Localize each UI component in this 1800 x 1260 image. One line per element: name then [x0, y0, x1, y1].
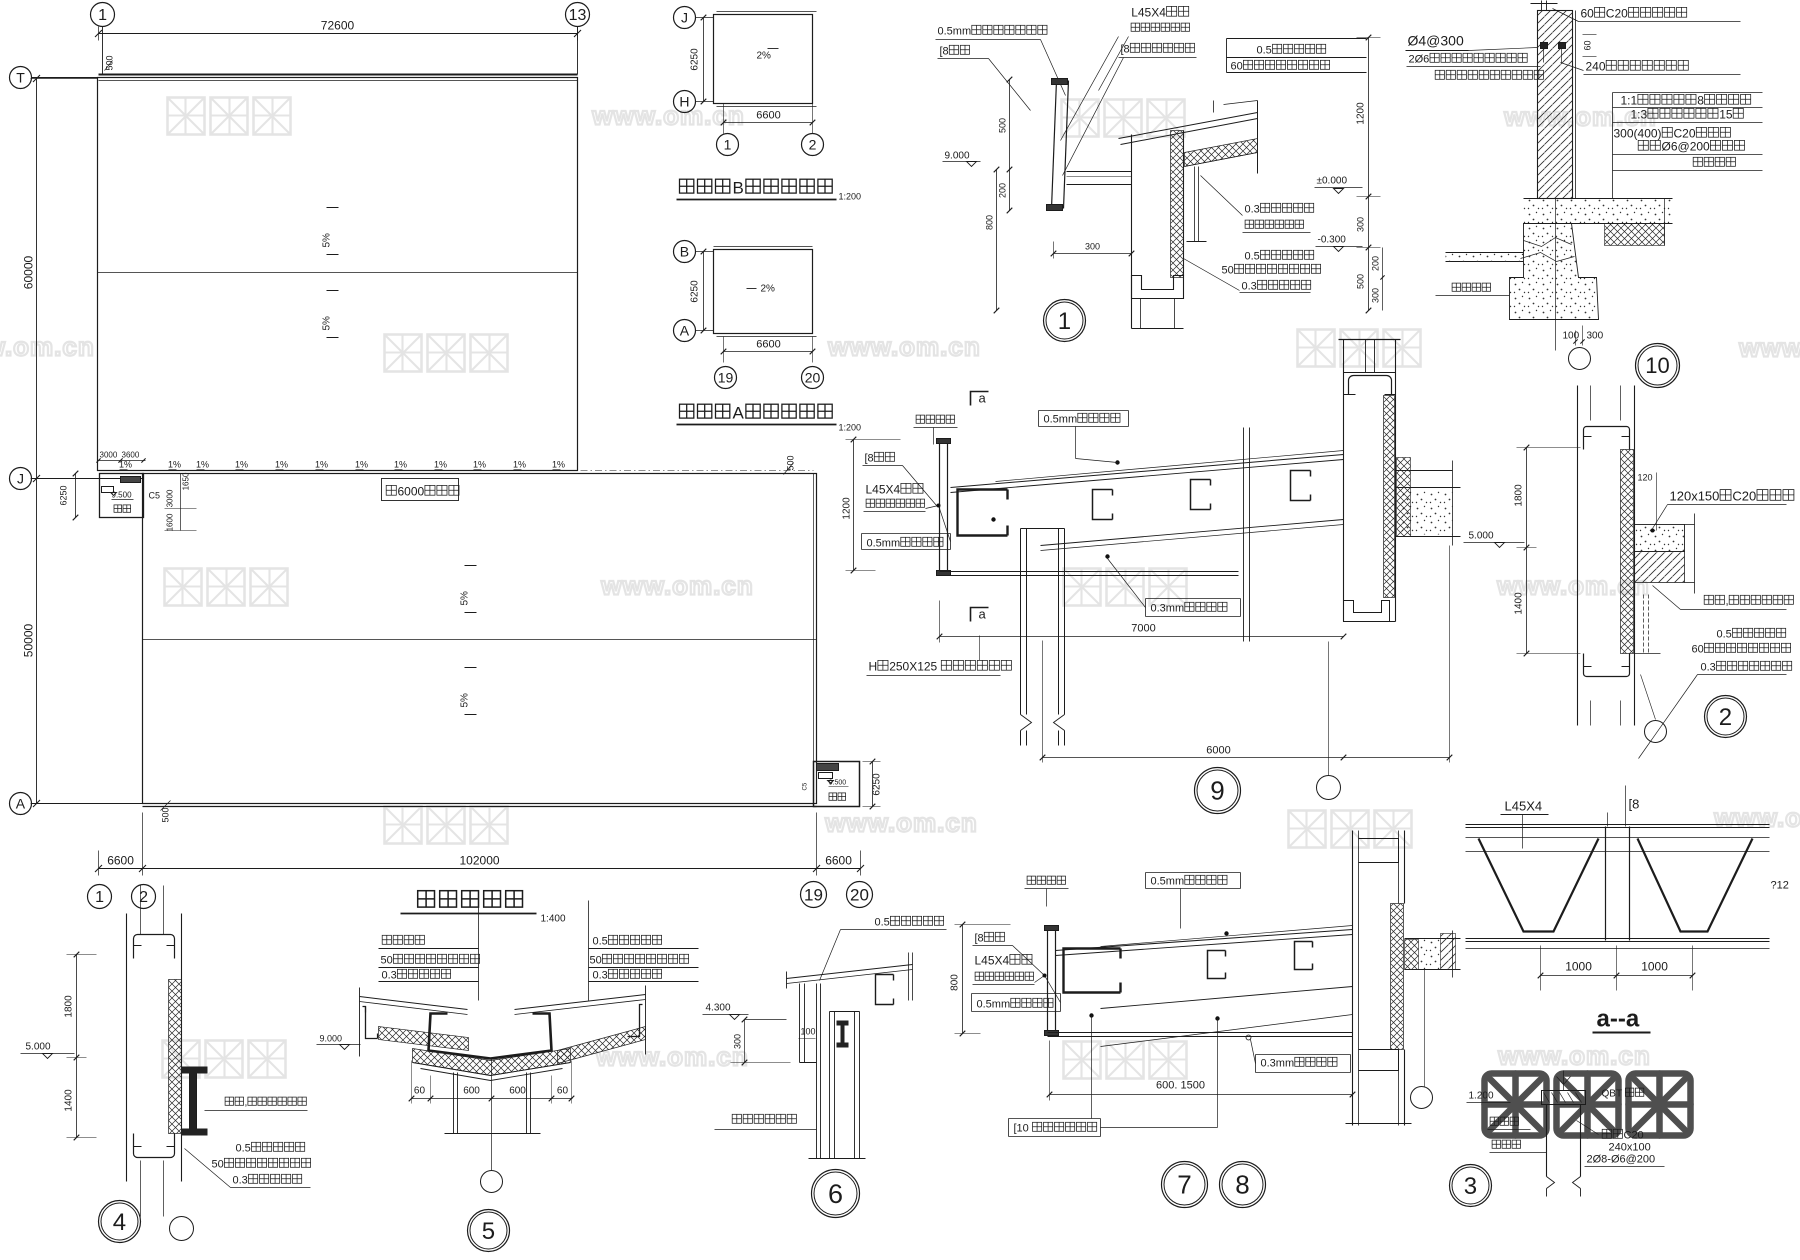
detail10 level tick2: [1357, 247, 1381, 249]
svg-text:1:3: 1:3: [1631, 108, 1648, 122]
aa label [8: [1629, 797, 1640, 812]
detail1 bubble: [1044, 300, 1086, 342]
svg-text:300: 300: [1356, 217, 1366, 232]
detail2 label 120x150 C20: [1670, 489, 1794, 504]
svg-text:20: 20: [805, 369, 821, 385]
detail1 dim 300: [1085, 242, 1100, 252]
svg-text:9.000: 9.000: [320, 1034, 343, 1044]
detail10 label D4@300: [1408, 33, 1464, 49]
dim 72600 top of plan1: [99, 33, 578, 35]
svg-text:A: A: [16, 795, 26, 811]
detail78 bubble 8: [1220, 1162, 1266, 1208]
svg-text:2: 2: [809, 136, 817, 152]
plan2 slope 5% upper: [465, 565, 477, 567]
svg-text:[8: [8: [940, 46, 949, 58]
detail5 small circle: [481, 1171, 503, 1193]
svg-text:0.3: 0.3: [382, 970, 397, 982]
label C5: [149, 491, 161, 501]
svg-text:9: 9: [1210, 776, 1224, 806]
detail10 right spec box: [1613, 92, 1763, 94]
svg-text:www.om.cn: www.om.cn: [0, 332, 95, 362]
detail10 level tick: [1357, 196, 1381, 198]
label 500 offset top-left: [105, 55, 115, 70]
grid bubble J: [10, 468, 32, 490]
title plan B: [680, 179, 833, 198]
grid bubble 20 bottom: [847, 882, 873, 908]
detail6 I beam small: [837, 1021, 849, 1026]
slope 2% plan B: [757, 51, 772, 62]
svg-text:0.5mm: 0.5mm: [1151, 876, 1185, 888]
svg-text:6250: 6250: [690, 280, 701, 303]
grid bubble 1 bottom: [88, 885, 112, 909]
detail4 small circle: [170, 1217, 194, 1241]
svg-text:0.5: 0.5: [1717, 629, 1732, 641]
svg-text:0.5: 0.5: [236, 1143, 251, 1155]
svg-text:1%: 1%: [434, 460, 447, 470]
detail78 dim 600 1500: [1156, 1080, 1205, 1092]
plan2 slope 5% lower: [465, 667, 477, 669]
detail3 wall: [1546, 1105, 1548, 1177]
detail4 wall crosshatch: [169, 980, 182, 1134]
detail78 roof deck sloped: [1056, 930, 1353, 951]
grid bubble J small: [674, 7, 696, 29]
svg-text:300(400): 300(400): [1614, 127, 1662, 141]
svg-text:B: B: [680, 243, 689, 259]
detail9 label 0.3mm plate boxed: [1151, 602, 1228, 614]
svg-text:0.5mm: 0.5mm: [1044, 414, 1078, 426]
aa top chord: [1466, 824, 1770, 826]
svg-text:1200: 1200: [1356, 102, 1367, 125]
grid bubble B small: [674, 241, 696, 263]
svg-text:1: 1: [724, 136, 732, 152]
svg-text:C5: C5: [149, 491, 161, 501]
detail9 H column: [1020, 529, 1022, 715]
grid bubble A: [10, 793, 32, 815]
svg-text:[8: [8: [1121, 44, 1130, 56]
detail10 subbase crosshatch: [1605, 224, 1665, 246]
detail1 wall column: [1131, 135, 1133, 329]
detail5 right roof deck: [515, 995, 646, 1010]
watermark logo: [1062, 100, 1185, 137]
svg-text:1: 1: [1058, 308, 1071, 335]
detail1 dim 500 200: [1009, 80, 1011, 211]
detail2 bubble: [1705, 696, 1747, 738]
watermark logo: [385, 335, 508, 372]
svg-text:500: 500: [786, 455, 796, 470]
detail10 small circle: [1569, 348, 1591, 370]
detail9 label gutter plate: [916, 415, 954, 423]
detail78 gutter channel thick: [1064, 949, 1121, 993]
svg-text:1:1: 1:1: [1621, 94, 1638, 108]
detail78 gutter wall: [1047, 928, 1049, 1036]
svg-text:2Ø8-Ø6@200: 2Ø8-Ø6@200: [1587, 1154, 1656, 1166]
svg-text:A: A: [733, 404, 745, 423]
aa label L45X4: [1505, 799, 1543, 814]
detail4 wall column: [126, 914, 128, 1182]
detail9 lower deck: [1041, 520, 1344, 546]
aa dims 1000 1000: [1541, 975, 1693, 977]
detail4 level 5.000: [26, 1042, 51, 1053]
elevator plan B outline: [714, 15, 813, 104]
detail9 section marker a top: [971, 392, 989, 406]
svg-text:6600: 6600: [825, 854, 852, 868]
detail10 label coarse sand: [1452, 283, 1490, 291]
svg-text:50: 50: [590, 955, 602, 967]
detail4 labels bottom: [236, 1142, 305, 1154]
svg-text:?12: ?12: [1771, 880, 1789, 892]
svg-text:0.5mm: 0.5mm: [867, 538, 901, 550]
detail4 bubble: [99, 1201, 141, 1243]
svg-text:6600: 6600: [756, 110, 780, 122]
detail2 labels right: [1717, 628, 1786, 640]
svg-text:19: 19: [804, 886, 823, 905]
svg-text:7000: 7000: [1131, 623, 1155, 635]
elevator plan A outline: [714, 250, 813, 334]
detail2 small circle: [1645, 721, 1667, 743]
svg-text:1%: 1%: [394, 460, 407, 470]
detail78 leader dots: [1089, 1013, 1093, 1017]
svg-text:C20: C20: [1606, 7, 1628, 21]
svg-text:0.3mm: 0.3mm: [1261, 1058, 1295, 1070]
svg-text:600: 600: [509, 1086, 526, 1097]
detail10 dim 300 500: [1368, 197, 1370, 311]
detail3 top marks: [1563, 1071, 1565, 1091]
svg-text:1%: 1%: [473, 460, 486, 470]
detail10 wall hatched: [1538, 11, 1573, 199]
detail78 bottom chord: [1048, 1032, 1353, 1034]
detail1 label [8 stud: [940, 45, 970, 57]
detail2 hanger rods: [1643, 595, 1645, 654]
svg-text:J: J: [17, 470, 24, 486]
svg-text:10: 10: [1645, 353, 1669, 378]
detail5 lower insulation V band: [413, 1049, 571, 1076]
plan2 ridge line: [143, 639, 817, 641]
detail1 inner hanger: [1194, 167, 1196, 242]
detail10 floor slab concrete: [1524, 198, 1673, 200]
watermark logo: [1298, 330, 1421, 367]
svg-text:60: 60: [1583, 40, 1593, 50]
detail6 wall panel: [799, 984, 801, 1063]
grid bubble 2 plan B: [802, 134, 824, 156]
detail9 grid line pair: [1243, 428, 1245, 642]
detail9 right wall column: [1339, 339, 1401, 341]
dim 50000 left: [36, 479, 38, 804]
svg-text:50: 50: [381, 955, 393, 967]
detail6 roof deck: [787, 965, 913, 979]
svg-text:1200: 1200: [842, 497, 853, 520]
dim 6250 plan B: [703, 18, 705, 102]
svg-text:60000: 60000: [22, 256, 36, 290]
svg-text:Ø4@300: Ø4@300: [1408, 33, 1464, 49]
svg-text:C20: C20: [1732, 489, 1756, 504]
svg-text:8: 8: [1697, 94, 1704, 108]
svg-text:L45X4: L45X4: [866, 483, 901, 497]
svg-text:72600: 72600: [321, 19, 355, 33]
watermark logo: [385, 807, 508, 844]
dim 6250 machine room right: [872, 762, 874, 807]
detail78 label [10 boxed: [1014, 1122, 1097, 1134]
svg-text:2: 2: [1719, 704, 1732, 731]
svg-text:60: 60: [557, 1086, 569, 1097]
svg-text:100: 100: [801, 1027, 816, 1037]
svg-text:1000: 1000: [1565, 960, 1592, 974]
svg-text:0.3: 0.3: [233, 1175, 248, 1187]
svg-text:3600: 3600: [122, 451, 140, 460]
svg-text:1%: 1%: [119, 460, 132, 470]
dim 60000 left: [36, 79, 38, 479]
detail78 label gutter plate: [1027, 876, 1065, 884]
svg-text:1800: 1800: [64, 995, 75, 1018]
svg-text:0.3: 0.3: [1701, 662, 1716, 674]
detail10 dim 100 300 bottom: [1563, 331, 1580, 342]
svg-text:T: T: [16, 69, 25, 85]
plan2 eave dashed line: [146, 470, 814, 472]
svg-text:0.3mm: 0.3mm: [1151, 603, 1185, 615]
slope 2% plan A: [761, 284, 776, 295]
svg-text:5: 5: [482, 1218, 495, 1245]
svg-text:a: a: [979, 391, 987, 406]
svg-text:240x100: 240x100: [1609, 1142, 1651, 1154]
detail4 dim 1800 1400: [76, 955, 78, 1138]
detail2 concrete ledge: [1635, 525, 1685, 552]
detail1 beam: [1067, 171, 1132, 173]
svg-text:1: 1: [98, 7, 107, 24]
svg-text:6250: 6250: [872, 773, 883, 796]
detail4 label steel beam fireproof: [225, 1097, 306, 1108]
svg-text:[8: [8: [865, 453, 874, 465]
svg-text:1:400: 1:400: [541, 914, 566, 925]
aa bottom chord: [1466, 938, 1770, 940]
svg-text:www.om.cn: www.om.cn: [827, 332, 981, 362]
detail9 left dim 1200: [853, 440, 855, 571]
detail10 small 60: [1583, 40, 1593, 50]
detail10 label 60厚C20混凝土压顶: [1581, 7, 1687, 21]
svg-text:www.om.cn: www.om.cn: [1497, 1041, 1651, 1071]
svg-text:4: 4: [113, 1209, 126, 1236]
svg-text:600. 1500: 600. 1500: [1156, 1080, 1205, 1092]
svg-text:7: 7: [1177, 1170, 1191, 1200]
svg-text:5%: 5%: [322, 233, 333, 248]
detail2 dim 1800 1400: [1526, 448, 1528, 654]
detail9 right wall bottom channel: [1344, 601, 1390, 622]
svg-text:1800: 1800: [1514, 484, 1525, 507]
detail2 dim 120: [1638, 473, 1653, 483]
detail9 dim 6000: [1206, 745, 1230, 757]
svg-text:60: 60: [1231, 61, 1243, 73]
detail5 dims 60 600 600 60: [412, 1098, 573, 1100]
plan1 roof outline: [98, 78, 578, 471]
detail10 label 240 wall: [1586, 60, 1689, 74]
svg-text:9.000: 9.000: [945, 151, 970, 162]
svg-text:1:200: 1:200: [839, 192, 862, 202]
detail4 bottom channel: [134, 1134, 175, 1158]
detail6 level 4.300: [706, 1003, 731, 1014]
svg-text:20: 20: [850, 886, 869, 905]
svg-text:www.om.cn: www.om.cn: [600, 571, 754, 601]
aa label 12: [1771, 880, 1789, 892]
detail6 bubble: [812, 1170, 860, 1218]
plan2 roof outline: [143, 474, 817, 804]
detail5 bubble: [468, 1210, 510, 1252]
detail1 roof slope: [1119, 113, 1258, 139]
watermark logo: [1064, 1042, 1187, 1079]
detail5 level 9.000: [320, 1034, 343, 1044]
svg-text:1600: 1600: [166, 513, 175, 531]
aa web members: [1479, 839, 1599, 932]
detail9 small circle: [1317, 776, 1341, 800]
svg-text:3000: 3000: [166, 489, 175, 507]
detail10 wall centerline: [1555, 199, 1557, 351]
detail2 top channel: [1584, 427, 1630, 450]
svg-text:1.200: 1.200: [1469, 1091, 1494, 1102]
detail78 lower deck: [1101, 987, 1353, 1009]
detail78 label 0.3mm boxed: [1261, 1057, 1338, 1069]
detail9 bubble 9: [1195, 768, 1241, 814]
plan1 slope 5% lower: [327, 290, 339, 292]
svg-text:B: B: [733, 179, 745, 198]
detail78 right wall column: [1352, 831, 1354, 1126]
svg-text:a--a: a--a: [1597, 1006, 1640, 1033]
svg-text:[8: [8: [1629, 797, 1640, 812]
svg-text:C20: C20: [1674, 127, 1696, 141]
svg-text:C20: C20: [1624, 1130, 1644, 1142]
svg-text:300: 300: [733, 1034, 743, 1049]
svg-text:500: 500: [161, 807, 171, 822]
detail2 bottom channel: [1584, 654, 1630, 677]
svg-text:50: 50: [1222, 265, 1234, 277]
svg-text:6250: 6250: [59, 485, 69, 505]
detail9 left gutter wall: [939, 441, 941, 575]
detail3 bubble: [1450, 1165, 1492, 1207]
detail1 level +-0.000: [1317, 176, 1348, 187]
svg-text:300: 300: [1371, 288, 1381, 303]
svg-text:600: 600: [463, 1086, 480, 1097]
detail10 top post: [1541, 1, 1543, 11]
svg-text:0.5mm: 0.5mm: [938, 26, 972, 38]
detail9 dim 7000: [1131, 623, 1155, 635]
svg-text:8: 8: [1235, 1170, 1249, 1200]
detail10 bubble: [1636, 344, 1680, 388]
detail78 left labels: [975, 932, 1005, 944]
svg-text:1%: 1%: [513, 460, 526, 470]
svg-text:H: H: [869, 660, 878, 674]
grid bubble 1 top: [91, 3, 115, 27]
svg-text:60: 60: [414, 1086, 426, 1097]
detail6 label wire mesh: [732, 1114, 796, 1123]
detail10 label 2D6: [1409, 53, 1528, 65]
detail9 roof deck sloped: [951, 455, 1344, 488]
watermark logo: [163, 1041, 286, 1078]
svg-text:L45X4: L45X4: [1131, 6, 1166, 20]
dim 6600 plan A: [724, 351, 813, 353]
plan1 slope 5% upper: [327, 207, 339, 209]
detail1 label L45X4 truss: [1131, 6, 1189, 20]
svg-text:1%: 1%: [552, 460, 565, 470]
detail9 right wall top channel: [1349, 376, 1392, 395]
dims 3000 3600 above machine room: [100, 451, 118, 460]
detail9 section marker a bottom: [971, 608, 989, 622]
detail10 dim 1200 left: [1368, 38, 1370, 197]
svg-text:500: 500: [998, 118, 1008, 133]
grid bubble 1 plan B: [717, 134, 739, 156]
detail3 labels right: [1602, 1088, 1644, 1099]
detail78 bubble 7: [1162, 1162, 1208, 1208]
label 500 top-right plan2: [786, 455, 796, 470]
detail78 hanger line: [1424, 970, 1426, 1087]
detail78 right ledge concrete: [1405, 938, 1461, 940]
detail6 label 0.5 plate: [875, 916, 944, 928]
svg-text:0.5: 0.5: [593, 936, 608, 948]
svg-text:1%: 1%: [275, 460, 288, 470]
svg-text:13: 13: [569, 7, 587, 24]
detail1 level -0.300: [1318, 235, 1347, 246]
aa center post: [1605, 827, 1607, 941]
svg-text:www.om.cn: www.om.cn: [824, 808, 978, 838]
detail4 top channel: [134, 935, 175, 959]
detail3 labels left: [1490, 1117, 1518, 1125]
detail9 purlins: [1093, 490, 1113, 520]
svg-text:120: 120: [1638, 473, 1653, 483]
svg-text:C5: C5: [803, 782, 809, 790]
svg-text:2Ø6: 2Ø6: [1409, 54, 1430, 66]
svg-text:0.3: 0.3: [1245, 204, 1260, 216]
detail2 wall column: [1577, 386, 1579, 726]
svg-text:www.om.cn: www.om.cn: [591, 101, 745, 131]
detail1 label 0.5mm pressed steel plate: [938, 25, 1048, 37]
machine room top-left: [100, 474, 144, 518]
grid bubble 19 plan A: [715, 367, 737, 389]
svg-text:250X125: 250X125: [889, 660, 937, 674]
detail78 right wall bottom channel: [1359, 1050, 1399, 1071]
svg-text:0.3: 0.3: [1242, 281, 1257, 293]
detail10 anchor marks: [1541, 43, 1548, 49]
svg-text:800: 800: [985, 215, 995, 230]
svg-text:800: 800: [950, 974, 961, 991]
detail4 I-beam: [182, 1069, 206, 1134]
svg-text:6250: 6250: [690, 48, 701, 71]
detail6 ground line: [809, 1158, 866, 1160]
svg-text:1%: 1%: [168, 460, 181, 470]
svg-text:120x150: 120x150: [1670, 489, 1720, 504]
detail10 foundation: [1510, 224, 1599, 320]
detail1 label [8 fixed to beam: [1121, 43, 1195, 55]
detail1 roof insulation hatch: [1185, 139, 1258, 167]
svg-text:50: 50: [212, 1159, 224, 1171]
plan2 bottom dims: [99, 868, 861, 870]
detail5 left end channel: [363, 1007, 378, 1039]
note box 每6000设一个: [382, 479, 459, 501]
svg-text:3: 3: [1464, 1173, 1477, 1200]
svg-text:A: A: [680, 322, 690, 338]
svg-text:[10: [10: [1014, 1123, 1029, 1135]
svg-text:5%: 5%: [460, 591, 471, 606]
detail1 dim 800: [996, 170, 998, 311]
grid bubble H small: [674, 91, 696, 113]
svg-text:200: 200: [998, 183, 1008, 198]
detail78 right wall crosshatch: [1391, 904, 1404, 1050]
dim 6600 plan B: [724, 122, 813, 124]
detail5 posts: [453, 1073, 455, 1134]
svg-text:200: 200: [1371, 256, 1381, 271]
title plan A: [680, 404, 833, 423]
svg-text:1: 1: [95, 889, 104, 906]
detail6 purlin channel: [876, 975, 894, 1005]
svg-text:5.000: 5.000: [26, 1042, 51, 1053]
svg-text:300: 300: [1085, 242, 1100, 252]
grid bubble T: [10, 67, 32, 89]
detail9 left labels: [865, 452, 895, 464]
svg-text:15: 15: [1719, 108, 1733, 122]
